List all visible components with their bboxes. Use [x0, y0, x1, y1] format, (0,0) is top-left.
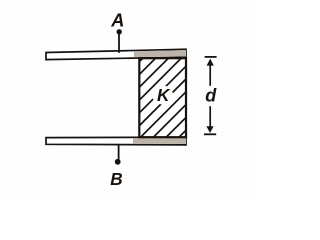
terminal dot B [115, 159, 121, 165]
top plate (capacitor plate, terminal A side) [46, 49, 186, 59]
bottom plate shaded right portion [133, 138, 186, 144]
svg-text:d: d [205, 86, 217, 106]
dimension line lower segment [209, 106, 211, 128]
dimension bottom tick [204, 133, 216, 135]
bottom plate (capacitor plate, terminal B side) [46, 137, 186, 145]
terminal dot A [117, 29, 122, 34]
dielectric hatching [61, 52, 277, 140]
dimension arrow up head [207, 59, 214, 66]
top plate shaded right portion [134, 50, 186, 57]
wire lead to terminal B [118, 144, 120, 159]
svg-text:K: K [157, 85, 171, 105]
white gap around label K [152, 86, 173, 105]
dimension top tick [205, 56, 217, 58]
svg-text:A: A [110, 11, 124, 31]
dimension arrow down head [206, 126, 213, 133]
dimension line upper segment [209, 64, 211, 86]
dielectric slab K outline [139, 58, 186, 137]
wire lead to terminal A [118, 34, 120, 53]
svg-text:B: B [110, 169, 122, 189]
